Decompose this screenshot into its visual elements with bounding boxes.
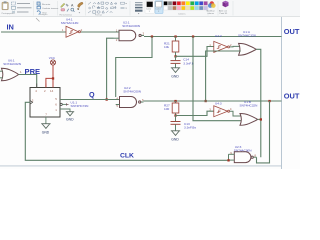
sheet border bottom (0, 165, 282, 167)
svg-text:Abrir con: Abrir con (219, 10, 227, 13)
wire chip CLK pin to bottom CLK rail (left loop) (25, 102, 228, 160)
junction dot W1 x152 (151, 35, 153, 37)
svg-text:Portapapeles: Portapapeles (2, 12, 16, 15)
wire W1: NAND1 output to sheet border (OUT) (144, 36, 282, 38)
svg-text:Imagen: Imagen (40, 14, 48, 16)
svg-text:SN74HC32N: SN74HC32N (240, 104, 258, 108)
ground (below C14) (171, 68, 180, 73)
svg-text:GND: GND (171, 75, 179, 79)
resistor R27 labels (164, 103, 170, 111)
wire NAND1 lower input loop (down to Q wire) (107, 38, 114, 99)
color palette (164, 1, 208, 10)
chip pin 7 to ground (bottom) (45, 117, 47, 124)
svg-text:3.3nF.Bs: 3.3nF.Bs (184, 126, 196, 130)
image group small icons + captions (37, 2, 59, 16)
resistor R21 (172, 37, 179, 57)
junction dot on Q wire at x106.6 (106, 98, 108, 100)
junction dot W2 x205.6 (205, 100, 207, 102)
svg-text:U4:3: U4:3 (215, 101, 222, 105)
svg-text:Formas: Formas (95, 13, 102, 16)
capacitor C13 labels (184, 122, 196, 130)
svg-text:SN74AC00N: SN74AC00N (122, 24, 140, 28)
OR gate U1:A labels (238, 30, 256, 38)
svg-text:GND: GND (42, 131, 50, 135)
wire RC1 node to inverter U4:2 input (176, 47, 214, 57)
NAND gate U2:3 (bottom) (229, 152, 257, 163)
svg-text:10k: 10k (164, 45, 169, 49)
capacitor C14 (171, 56, 181, 67)
chip top pin stubs (36, 84, 38, 88)
junction dot RC2 node (174, 114, 176, 116)
gate U6:1 (left edge OR gate) (2, 68, 19, 80)
tools grid (60, 3, 75, 16)
svg-text:3.3nF.B: 3.3nF.B (183, 62, 194, 66)
NAND gate U2:1 (114, 30, 145, 41)
svg-text:14: 14 (50, 89, 54, 93)
svg-text:100: 100 (164, 107, 169, 111)
wire U4:2 output to OR U1:A input1 (230, 45, 241, 48)
junction dot W2 x270 (268, 100, 270, 102)
svg-text:SN74AC00N: SN74AC00N (123, 89, 141, 93)
wire inverter U4:1 output to NAND U2:1 input (81, 31, 120, 33)
resistor R27 (172, 101, 179, 116)
NAND U2:3 labels (234, 145, 252, 152)
wire U4:3 output to OR U1:B input1 (230, 111, 242, 116)
NAND U2:1 labels (122, 20, 140, 28)
OR gate U1:B labels (240, 100, 258, 108)
svg-text:Color: Color (155, 8, 160, 11)
svg-text:Q: Q (89, 90, 95, 99)
inverter U4:1 (66, 26, 80, 37)
wire OR U1:A output down to W2 level and on to bottom NAND (256, 49, 261, 157)
line width icon (135, 2, 143, 11)
wire W2: NAND2 output to sheet border (OUT lower) (144, 100, 282, 102)
wire Q: chip pin 5 to NAND2 input (60, 99, 120, 101)
flip-flop U1:1 chip box (30, 88, 60, 118)
svg-text:GND: GND (171, 138, 179, 142)
svg-text:Paint 3D: Paint 3D (220, 12, 228, 15)
pencil cursor mark (36, 18, 40, 22)
color 2 button (white, selected) (155, 1, 163, 14)
pin numbers U2:1 (116, 29, 145, 42)
wire RC2 node to inverter U4:3 input (176, 111, 214, 115)
svg-text:SN74AC14N: SN74AC14N (61, 21, 79, 25)
svg-text:GND: GND (66, 118, 74, 122)
VCC symbol (50, 60, 55, 65)
capacitor C13 (171, 116, 181, 131)
svg-text:CLK: CLK (120, 152, 134, 159)
toolbar background (0, 0, 300, 16)
junction dot OR1B output joint (260, 118, 262, 120)
tied inputs riser for U2:3 (228, 154, 230, 160)
junction dot VCC (52, 77, 54, 79)
svg-text:colores: colores (208, 13, 214, 15)
ground (below C13) (171, 131, 180, 136)
chip pin 1 to ground (60, 109, 70, 112)
wire IN to inverter U4:1 (1, 31, 66, 33)
svg-text:OUT: OUT (284, 27, 300, 36)
sheet border right (281, 17, 283, 169)
junction dot W1 x175.5 (174, 35, 176, 37)
canvas background (0, 0, 300, 169)
wire OR U1:B output up to W2 (258, 118, 261, 120)
svg-text:Colores: Colores (178, 13, 186, 16)
paste icon (clipboard) (2, 1, 16, 15)
svg-text:SN74AC02N: SN74AC02N (3, 62, 21, 66)
inverter U4:3 (214, 106, 230, 117)
svg-text:Color: Color (146, 8, 151, 11)
selection tool icon (12, 2, 32, 13)
pin 1 / pin 2 of U4:1 (62, 28, 83, 32)
ground (chip bottom) (41, 124, 50, 129)
svg-text:Cambiar tamano: Cambiar tamano (42, 7, 59, 10)
svg-text:SN74HC74N: SN74HC74N (71, 104, 89, 108)
paint 3d icon (219, 1, 229, 15)
chip pin 6 (Q-bar) bubble (60, 103, 62, 105)
junction dot W2 x175.5 (174, 100, 176, 102)
wire NAND1 output feedback loop down-left to NAND2 (116, 37, 152, 98)
wire bottom NAND output jog down and up to W2 (x269.5 riser) (257, 101, 270, 163)
OR gate U1:A (239, 43, 257, 55)
ground (chip right) (66, 112, 74, 116)
svg-text:Herramientas: Herramientas (60, 13, 72, 16)
svg-text:OUT: OUT (284, 91, 300, 100)
chip label U1:1 (71, 101, 89, 108)
junction dot CLK tie (227, 159, 229, 161)
junction dot RC1 node (174, 55, 176, 57)
NAND gate U2:2 (116, 97, 144, 108)
red VCC wiring to chip pins (46, 65, 53, 87)
chip pin numbers (32, 89, 58, 117)
wire PRE: gate output to chip pin 4 (19, 75, 37, 88)
svg-text:Recortar: Recortar (42, 3, 51, 6)
inverter U4:2 (214, 41, 230, 52)
chip clock pin wedge (30, 100, 33, 104)
OR gate U1:B (240, 114, 258, 126)
wire W1 to OR U1:B input2 (x193 dropper) (193, 37, 242, 121)
resistor R21 labels (164, 41, 170, 49)
svg-text:VCC: VCC (49, 56, 56, 60)
capacitor C14 labels (183, 58, 194, 66)
shapes grid (88, 2, 117, 13)
NAND U2:2 labels (123, 86, 141, 93)
svg-text:IN: IN (7, 23, 14, 32)
edit colors icon (207, 1, 216, 15)
wire into OR U1:A input2 (from W2 via x205.6 riser) (206, 51, 241, 101)
color 1 button (black) (145, 1, 154, 14)
gate U6:1 labels (3, 59, 21, 67)
svg-text:U4:2: U4:2 (215, 34, 222, 38)
junction dot W1 x193 (192, 35, 194, 37)
toolbar group separators (34, 1, 234, 16)
inverter U4:1 labels (61, 17, 79, 25)
svg-text:SN74HC32N: SN74HC32N (238, 34, 256, 38)
brush icon (77, 2, 83, 13)
